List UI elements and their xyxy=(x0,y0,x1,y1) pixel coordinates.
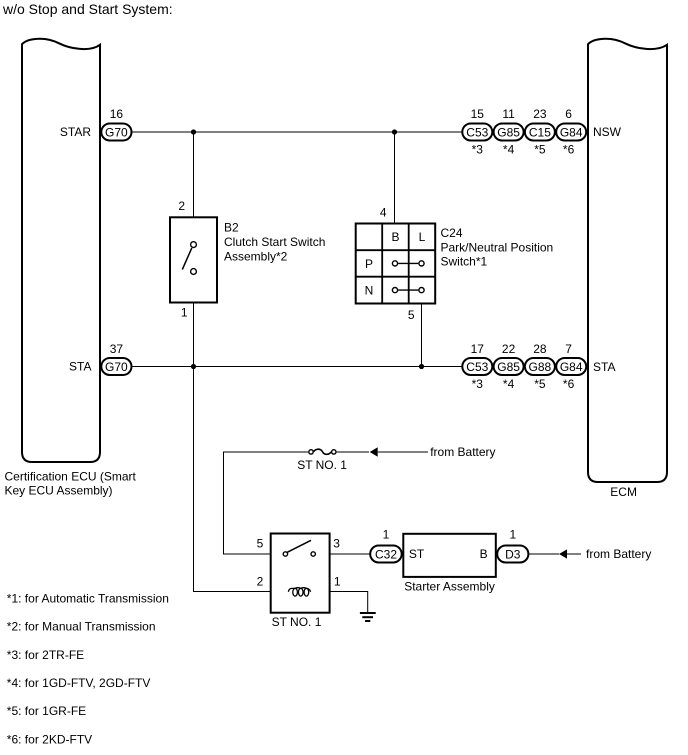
svg-text:1: 1 xyxy=(181,306,188,320)
svg-text:G84: G84 xyxy=(560,125,583,139)
svg-text:*3: *3 xyxy=(472,377,484,391)
svg-text:*5: for 1GR-FE: *5: for 1GR-FE xyxy=(7,704,86,718)
svg-text:28: 28 xyxy=(533,342,547,356)
svg-text:23: 23 xyxy=(533,107,547,121)
svg-text:L: L xyxy=(419,230,426,244)
svg-text:from Battery: from Battery xyxy=(586,547,651,561)
svg-text:Switch*1: Switch*1 xyxy=(441,255,488,269)
svg-text:*5: *5 xyxy=(534,377,546,391)
svg-text:from Battery: from Battery xyxy=(430,445,495,459)
svg-text:4: 4 xyxy=(380,206,387,220)
svg-text:37: 37 xyxy=(110,342,124,356)
svg-text:D3: D3 xyxy=(505,547,521,561)
svg-text:B: B xyxy=(480,547,488,561)
svg-text:*4: for 1GD-FTV, 2GD-FTV: *4: for 1GD-FTV, 2GD-FTV xyxy=(7,676,151,690)
svg-text:1: 1 xyxy=(509,527,516,541)
svg-text:*4: *4 xyxy=(503,377,515,391)
svg-text:B: B xyxy=(391,230,399,244)
svg-text:B2: B2 xyxy=(224,221,239,235)
svg-text:7: 7 xyxy=(565,342,572,356)
svg-text:ST NO. 1: ST NO. 1 xyxy=(272,615,322,629)
svg-text:*4: *4 xyxy=(503,142,515,156)
svg-text:NSW: NSW xyxy=(593,125,622,139)
svg-text:STA: STA xyxy=(593,360,615,374)
svg-text:2: 2 xyxy=(178,199,185,213)
svg-text:STAR: STAR xyxy=(60,125,91,139)
svg-text:*6: *6 xyxy=(563,142,575,156)
svg-text:1: 1 xyxy=(334,575,341,589)
svg-text:G70: G70 xyxy=(105,125,128,139)
svg-text:C53: C53 xyxy=(466,125,488,139)
svg-text:C15: C15 xyxy=(529,125,551,139)
svg-text:G84: G84 xyxy=(560,360,583,374)
svg-text:P: P xyxy=(365,257,373,271)
svg-text:*6: for 2KD-FTV: *6: for 2KD-FTV xyxy=(7,732,92,746)
svg-text:Key ECU Assembly): Key ECU Assembly) xyxy=(5,484,113,498)
svg-text:5: 5 xyxy=(257,536,264,550)
svg-text:w/o Stop and Start System:: w/o Stop and Start System: xyxy=(2,1,173,17)
svg-text:G88: G88 xyxy=(529,360,552,374)
svg-text:G70: G70 xyxy=(105,360,128,374)
svg-text:*1: for Automatic Transmission: *1: for Automatic Transmission xyxy=(7,591,169,605)
svg-text:15: 15 xyxy=(471,107,485,121)
svg-text:C24: C24 xyxy=(441,226,463,240)
svg-text:16: 16 xyxy=(110,107,124,121)
svg-text:*2: for Manual Transmission: *2: for Manual Transmission xyxy=(7,620,156,634)
svg-text:11: 11 xyxy=(502,107,515,121)
svg-text:1: 1 xyxy=(383,527,390,541)
svg-text:*5: *5 xyxy=(534,142,546,156)
svg-text:Park/Neutral Position: Park/Neutral Position xyxy=(441,240,554,254)
svg-text:Certification ECU (Smart: Certification ECU (Smart xyxy=(5,469,137,483)
svg-text:Clutch Start Switch: Clutch Start Switch xyxy=(224,235,325,249)
svg-text:17: 17 xyxy=(471,342,485,356)
svg-text:G85: G85 xyxy=(497,360,520,374)
svg-text:STA: STA xyxy=(69,360,91,374)
svg-text:G85: G85 xyxy=(497,125,520,139)
svg-text:C32: C32 xyxy=(375,547,397,561)
svg-text:ECM: ECM xyxy=(610,485,637,499)
svg-text:*6: *6 xyxy=(563,377,575,391)
svg-text:3: 3 xyxy=(333,536,340,550)
svg-text:N: N xyxy=(365,284,374,298)
svg-text:6: 6 xyxy=(565,107,572,121)
svg-text:C53: C53 xyxy=(466,360,488,374)
svg-text:ST NO. 1: ST NO. 1 xyxy=(297,458,347,472)
svg-text:Assembly*2: Assembly*2 xyxy=(224,250,288,264)
svg-text:Starter Assembly: Starter Assembly xyxy=(404,579,495,593)
svg-text:*3: *3 xyxy=(472,142,484,156)
svg-text:*3: for 2TR-FE: *3: for 2TR-FE xyxy=(7,648,84,662)
svg-text:22: 22 xyxy=(502,342,516,356)
svg-text:2: 2 xyxy=(257,575,264,589)
svg-text:5: 5 xyxy=(408,308,415,322)
svg-text:ST: ST xyxy=(409,547,425,561)
